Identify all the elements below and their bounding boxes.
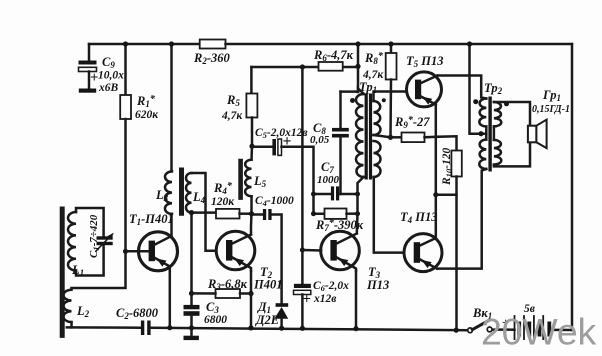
wire T1 emitter to rail bbox=[169, 271, 172, 328]
wire R7 row left bbox=[314, 194, 325, 214]
inductor Tp2 primary upper bbox=[479, 99, 486, 127]
wire C5 row left bbox=[252, 146, 272, 149]
transformer core L5 bbox=[238, 161, 243, 200]
wire T5 collector to Tp2 bbox=[438, 76, 487, 99]
svg-text:0,05: 0,05 bbox=[310, 134, 330, 146]
wire top rail right segment bbox=[226, 43, 573, 46]
wire T1 base bbox=[126, 250, 149, 253]
inductor Tp2 primary lower bbox=[479, 140, 486, 170]
svg-text:С6-2,0х: С6-2,0х bbox=[313, 280, 349, 293]
svg-text:0,15ГД-1: 0,15ГД-1 bbox=[532, 104, 570, 115]
wire R9 left bbox=[391, 136, 402, 139]
node Tp2 phase dot right bbox=[504, 101, 509, 106]
wire T3 base bbox=[302, 249, 321, 252]
wire right border bbox=[571, 44, 574, 330]
capacitor C1 variable bbox=[97, 236, 113, 245]
svg-text:20Wek: 20Wek bbox=[481, 311, 596, 353]
wire Tp1 primary bottom to T3 collector bbox=[358, 177, 364, 214]
wire T4 emitter to Tp2 bottom bbox=[437, 169, 486, 269]
wire rail2 to Tp1 column bbox=[357, 44, 360, 92]
wire R10 top bbox=[436, 136, 457, 150]
wire C7 row right bbox=[339, 193, 357, 196]
resistor R1 bbox=[120, 95, 131, 119]
svg-text:R10-120: R10-120 bbox=[441, 147, 454, 186]
transistor T4 bbox=[404, 234, 442, 272]
transformer Tp2 core bbox=[488, 97, 491, 172]
node rail2 right bbox=[355, 64, 360, 69]
node T3 base bbox=[300, 248, 305, 253]
wire C4 to D1 bbox=[272, 215, 282, 304]
node R5-L5-C5 bbox=[249, 144, 254, 149]
diode D1 bbox=[274, 303, 288, 319]
wire C3 to rail bbox=[190, 316, 193, 328]
transistor T2 bbox=[216, 231, 255, 271]
svg-text:Т1-П401: Т1-П401 bbox=[129, 212, 174, 227]
node Tp1 phase dot right bbox=[382, 98, 386, 102]
wire Tp1 secondary tap to R9 bbox=[374, 135, 391, 137]
capacitor C2 bbox=[141, 321, 151, 336]
transformer Tp1 core bbox=[365, 94, 373, 180]
svg-text:С2-6800: С2-6800 bbox=[116, 306, 159, 321]
resistor R10 bbox=[451, 151, 461, 177]
wire R4 to L5 node bbox=[240, 212, 252, 215]
wire R3 ends bbox=[192, 292, 216, 295]
svg-text:С4-1000: С4-1000 bbox=[255, 195, 294, 208]
inductor Tp1 secondary upper bbox=[374, 101, 381, 135]
capacitor C8 bbox=[332, 128, 349, 138]
wire Tp1 secondary top to T5 base bbox=[374, 92, 407, 102]
wire R1 branch top bbox=[124, 44, 127, 95]
node R8-R9 bbox=[388, 135, 393, 140]
wire C6 to rail bbox=[301, 295, 304, 329]
wire Tp2 secondary mid bbox=[493, 126, 496, 139]
wire T3 collector bbox=[356, 214, 359, 234]
inductor Tp1 secondary lower bbox=[374, 141, 381, 177]
wire D1 to rail bbox=[280, 319, 283, 328]
wire C9 branch bbox=[88, 44, 91, 61]
node R10 row left bbox=[433, 192, 438, 197]
capacitor C5 bbox=[272, 139, 281, 155]
node top rail L3 bbox=[169, 41, 174, 46]
capacitor C6 bbox=[294, 284, 311, 295]
wire T3 emitter to rail bbox=[355, 271, 358, 329]
svg-text:Т5 П13: Т5 П13 bbox=[406, 54, 444, 69]
transistor T3 bbox=[321, 231, 360, 271]
node top rail Tp1 bbox=[355, 41, 360, 46]
wire L2 to rail bbox=[70, 322, 73, 327]
wire Tp2 to speaker top bbox=[494, 102, 530, 126]
wire Tp2 primary mid bbox=[485, 127, 488, 140]
wire Tp2 to speaker bottom bbox=[494, 142, 530, 166]
svg-text:х12в: х12в bbox=[313, 293, 336, 305]
wire L4 top to T2 base bbox=[192, 173, 217, 251]
resistor R4 bbox=[216, 209, 240, 219]
wire R7 row right bbox=[347, 212, 358, 215]
inductor L2 bbox=[64, 290, 72, 322]
wire bottom rail right bbox=[492, 328, 515, 331]
wire T2 collector bbox=[250, 214, 253, 235]
node top rail R1 bbox=[123, 41, 128, 46]
wire R8 top bbox=[390, 44, 393, 53]
wire C8 tap bbox=[341, 90, 358, 93]
ground bbox=[184, 328, 199, 340]
svg-text:х6В: х6В bbox=[98, 82, 119, 94]
svg-text:R2-360: R2-360 bbox=[193, 51, 231, 66]
wire R10 row bbox=[436, 193, 457, 196]
node Tp2 tap bbox=[478, 131, 483, 136]
wire R9 right bbox=[425, 136, 436, 139]
node T1 base junction bbox=[123, 249, 128, 254]
node R10 rail bbox=[454, 328, 459, 333]
inductor L1 bbox=[68, 212, 76, 271]
node R7 left bbox=[311, 211, 316, 216]
inductor Tp1 primary bbox=[356, 94, 363, 177]
wire T1 collector bbox=[170, 214, 173, 236]
wire bottom rail mid bbox=[151, 328, 468, 330]
svg-text:620к: 620к bbox=[135, 109, 159, 121]
svg-text:R3-6,8к: R3-6,8к bbox=[207, 277, 248, 292]
node R7 right bbox=[355, 211, 360, 216]
wire T5 emitter column bbox=[435, 105, 438, 229]
svg-text:Д2Е: Д2Е bbox=[255, 313, 279, 327]
svg-text:+: + bbox=[303, 292, 311, 308]
node top rail R8 bbox=[388, 41, 393, 46]
wire Tp1 secondary bottom to T4 base bbox=[374, 177, 404, 253]
wire L5 ends bbox=[250, 146, 253, 160]
wire C8 top bbox=[339, 92, 342, 128]
inductor L5 bbox=[245, 160, 251, 197]
wire L4 bottom down to R3/C3 node bbox=[190, 213, 193, 294]
wire C7 row bbox=[314, 193, 332, 196]
svg-text:П13: П13 bbox=[366, 278, 389, 292]
svg-text:10,0х: 10,0х bbox=[98, 70, 124, 82]
svg-text:R9*-27: R9*-27 bbox=[394, 115, 430, 130]
node R3-C3 bbox=[189, 291, 194, 296]
node T1 emitter rail bbox=[167, 325, 172, 330]
svg-text:120к: 120к bbox=[211, 196, 235, 208]
node rail2 column A bbox=[300, 64, 305, 69]
svg-text:1000: 1000 bbox=[317, 174, 340, 186]
node R3 right bbox=[248, 291, 253, 296]
resistor R9 bbox=[402, 133, 425, 143]
node D1 rail bbox=[279, 326, 284, 331]
wire L4 bottom row bbox=[192, 211, 217, 214]
svg-text:С1-7÷420: С1-7÷420 bbox=[88, 214, 101, 258]
wire L3 branch from top rail bbox=[170, 44, 173, 171]
node C3 rail bbox=[189, 325, 194, 330]
resistor R8 bbox=[386, 53, 397, 80]
switch Vk1 bbox=[468, 320, 492, 333]
wire bottom rail left bbox=[67, 326, 141, 329]
wire Tp2 center tap column bbox=[470, 44, 487, 134]
node L4 bottom junction bbox=[189, 210, 194, 215]
wire rail2 bbox=[251, 66, 358, 69]
capacitor C3 bbox=[184, 305, 200, 316]
wire column A bbox=[301, 67, 304, 284]
wire R5 bottom bbox=[251, 118, 254, 147]
capacitor C4 bbox=[263, 209, 272, 220]
wire battery to corner bbox=[551, 329, 572, 332]
svg-text:R7*-390к: R7*-390к bbox=[315, 218, 364, 233]
node L5-C4-R4 bbox=[249, 211, 254, 216]
ferrite rod antenna core bbox=[60, 209, 65, 336]
transformer core L3-L4 bbox=[179, 170, 184, 214]
speaker Gr1 bbox=[528, 120, 547, 149]
resistor R7 bbox=[325, 209, 347, 219]
resistor R2 bbox=[200, 40, 226, 49]
svg-text:+: + bbox=[90, 70, 98, 86]
node Tp2 phase dot left bbox=[473, 99, 478, 104]
battery B1 bbox=[515, 316, 552, 339]
resistor R6 bbox=[319, 62, 343, 71]
wire C8 bottom bbox=[339, 138, 342, 195]
node C6 rail bbox=[300, 326, 305, 331]
wire C4 row left bbox=[252, 213, 264, 216]
wire T4 collector bbox=[435, 228, 438, 238]
wire T2 emitter to rail bbox=[250, 271, 253, 328]
svg-text:4,7к: 4,7к bbox=[221, 110, 243, 122]
svg-text:6800: 6800 bbox=[204, 314, 227, 326]
capacitor C9 bbox=[79, 61, 97, 93]
wire top rail left segment bbox=[89, 43, 200, 46]
inductor L4 bbox=[186, 173, 191, 213]
node Tp1 phase dot left bbox=[350, 98, 355, 103]
wire R10 bottom to rail bbox=[455, 177, 458, 331]
wire R8 bottom bbox=[389, 80, 392, 138]
capacitor C7 bbox=[331, 186, 339, 200]
svg-text:П401: П401 bbox=[253, 278, 282, 292]
svg-text:Т4 П13: Т4 П13 bbox=[400, 210, 438, 225]
wire L1-C1 loop bbox=[76, 208, 104, 236]
wire R5 top bbox=[250, 67, 253, 94]
node C7 row right bbox=[355, 192, 360, 197]
inductor Tp2 secondary lower bbox=[494, 140, 501, 165]
inductor Tp2 secondary upper bbox=[494, 102, 501, 126]
node T2 emitter rail bbox=[248, 325, 253, 330]
node C7 row left bbox=[311, 192, 316, 197]
wire C3 branch bbox=[190, 293, 193, 305]
wire C5 row right bbox=[282, 147, 314, 194]
transistor T5 bbox=[407, 72, 442, 107]
svg-text:R6-4,7к: R6-4,7к bbox=[313, 48, 354, 63]
transistor T1 bbox=[139, 232, 178, 271]
resistor R3 bbox=[216, 289, 241, 298]
resistor R5 bbox=[246, 94, 257, 118]
transformer Tp1 primary feed bbox=[358, 89, 364, 95]
node T3 emitter rail bbox=[353, 326, 358, 331]
wire R1 to T1 base node bbox=[72, 119, 126, 288]
node top rail Tp2 bbox=[467, 41, 472, 46]
inductor L3 bbox=[165, 171, 172, 214]
